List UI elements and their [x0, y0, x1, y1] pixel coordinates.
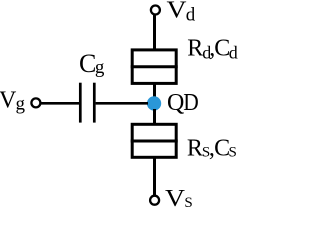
- svg-text:V: V: [165, 186, 186, 211]
- label Vs: [165, 186, 193, 212]
- terminal Vg: [31, 98, 40, 107]
- label Vg: [0, 88, 26, 115]
- wire: [96, 102, 148, 105]
- svg-text:g: g: [95, 57, 105, 78]
- capacitor Cg right plate: [93, 83, 96, 123]
- svg-text:R: R: [187, 136, 203, 162]
- QD node (quantum dot): [147, 96, 161, 110]
- svg-text:Q: Q: [167, 90, 184, 116]
- svg-text:d: d: [186, 4, 196, 25]
- svg-text:R: R: [187, 36, 203, 62]
- label Cg: [79, 49, 105, 78]
- svg-text:g: g: [16, 94, 26, 115]
- svg-text:S: S: [229, 144, 237, 160]
- svg-text:D: D: [183, 90, 199, 116]
- wire: [41, 102, 79, 105]
- tunnel junction source box Rs,Cs: [131, 124, 178, 157]
- tunnel junction drain box Rd,Cd: [131, 50, 178, 84]
- svg-text:C: C: [79, 49, 96, 78]
- label Rd, Cd: [187, 36, 238, 63]
- label Rs, Cs: [187, 136, 237, 162]
- label QD: [167, 90, 199, 116]
- svg-text:V: V: [0, 88, 17, 114]
- wire: [153, 157, 156, 196]
- wire: [153, 15, 156, 50]
- terminal Vd: [151, 6, 160, 15]
- terminal Vs: [150, 196, 159, 205]
- svg-text:S: S: [184, 195, 192, 211]
- label Vd: [167, 0, 196, 25]
- wire: [153, 109, 156, 126]
- svg-text:V: V: [167, 0, 188, 24]
- wire: [153, 83, 156, 98]
- svg-text:d: d: [229, 42, 238, 62]
- capacitor Cg left plate: [79, 83, 82, 123]
